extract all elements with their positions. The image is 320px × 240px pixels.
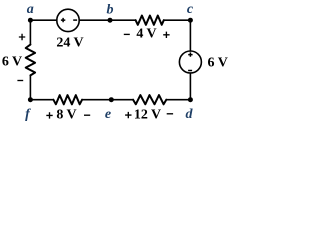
wire 24V source to b to 4V resistor [79, 19, 135, 21]
label - 4 V + below top resistor [124, 33, 130, 35]
wire 6V source to d [189, 73, 191, 100]
node a junction dot [28, 18, 33, 23]
resistor 12V zigzag [133, 95, 166, 104]
left resistor polarity - [17, 80, 23, 82]
node b junction dot [108, 18, 113, 23]
node d junction dot [188, 97, 193, 102]
svg-text:6 V: 6 V [2, 55, 22, 70]
svg-text:4 V: 4 V [136, 27, 156, 42]
node e junction dot [109, 97, 114, 102]
wire d to 12V resistor [166, 99, 190, 101]
wire 12V resistor to e to 8V resistor [82, 99, 133, 101]
resistor 6V zigzag (left, vertical) [26, 45, 35, 76]
voltage source 6V circle (right) [179, 51, 201, 73]
node c junction dot [188, 18, 193, 23]
24V source polarity - [73, 19, 77, 21]
svg-text:c: c [187, 2, 194, 17]
svg-text:6 V: 6 V [208, 55, 228, 70]
wire 8V resistor to f [30, 99, 53, 101]
svg-text:8 V: 8 V [56, 108, 76, 123]
voltage source 24V circle [57, 9, 79, 31]
svg-text:12 V: 12 V [134, 108, 161, 123]
right 6V source polarity + [188, 52, 192, 56]
left resistor polarity + [19, 34, 25, 40]
label + 8 V - below bottom-left resistor [46, 112, 52, 118]
svg-text:24 V: 24 V [56, 36, 83, 51]
svg-text:d: d [186, 107, 194, 122]
resistor 4V zigzag [136, 16, 164, 25]
resistor 8V zigzag [53, 95, 82, 104]
svg-text:e: e [105, 107, 111, 122]
24V source polarity + [61, 18, 65, 22]
svg-text:b: b [107, 3, 114, 18]
wire 6V resistor up to a [29, 20, 31, 44]
label + 12 V - below bottom-right resistor [125, 112, 131, 118]
svg-text:a: a [27, 2, 34, 17]
node f junction dot [28, 97, 33, 102]
wire 4V resistor to c [164, 19, 191, 21]
wire c down to 6V source [189, 20, 191, 51]
right 6V source polarity - [188, 70, 192, 72]
wire a to 24V source [30, 19, 56, 21]
wire f up to 6V resistor [29, 75, 31, 99]
